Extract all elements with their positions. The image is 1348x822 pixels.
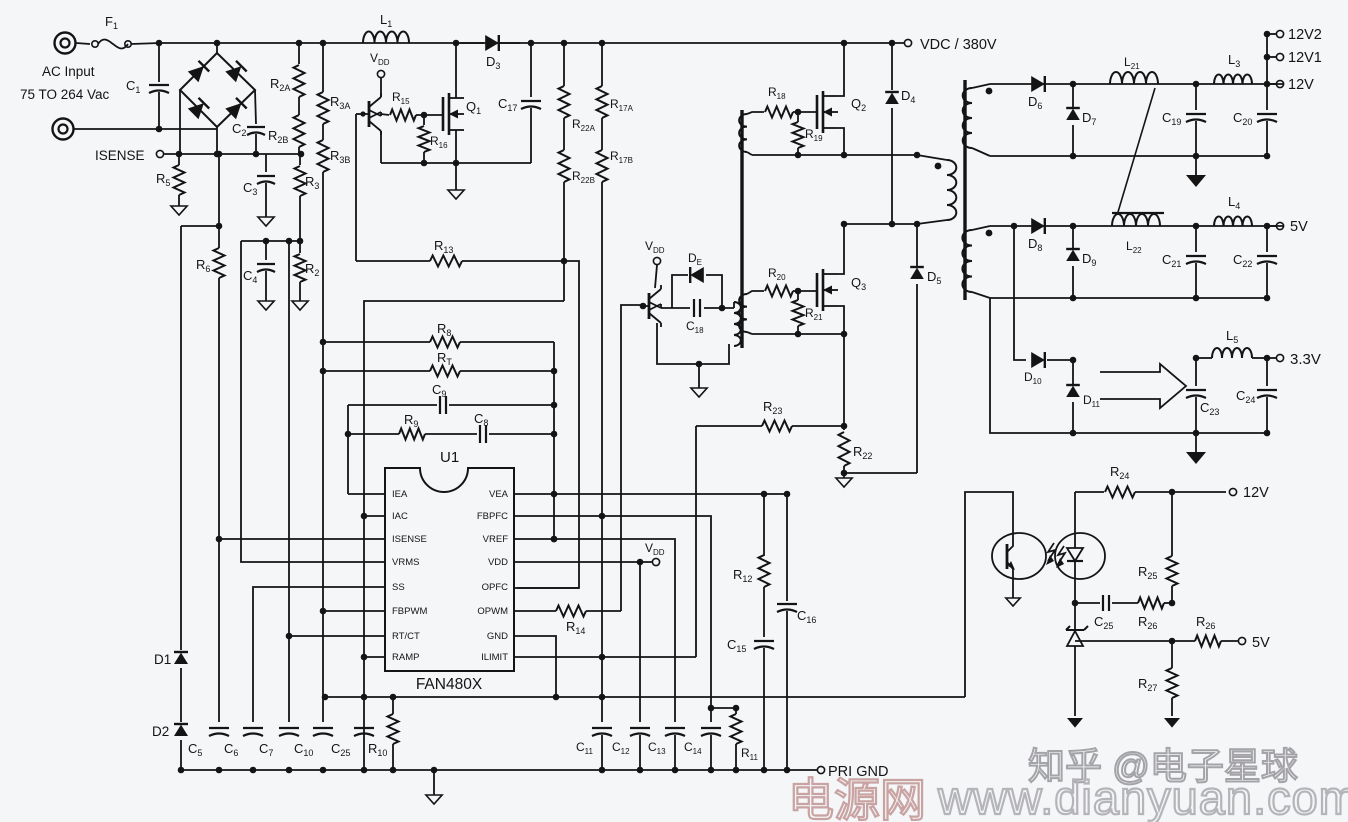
wire col564 top [561, 40, 568, 86]
capacitor C13 [648, 728, 685, 770]
transistor Q2 [817, 91, 866, 133]
resistor R14 [514, 606, 621, 637]
resistor R26 [1112, 598, 1175, 632]
svg-text:C15: C15 [727, 637, 746, 654]
resistor R6 [196, 248, 225, 722]
bridge rectifier [180, 53, 255, 127]
svg-text:R15: R15 [392, 90, 410, 106]
svg-text:C2: C2 [232, 121, 246, 138]
svg-text:VDD: VDD [488, 557, 508, 568]
svg-text:FBPFC: FBPFC [477, 511, 508, 522]
inductor L5 [1193, 328, 1271, 361]
diode D5 [910, 224, 941, 473]
capacitor C15 [727, 637, 774, 770]
resistor R11 [711, 705, 759, 770]
svg-text:C23: C23 [1200, 400, 1219, 417]
svg-text:L5: L5 [1226, 328, 1238, 345]
wire 12V return rail [990, 155, 1267, 157]
svg-text:R11: R11 [741, 746, 759, 762]
svg-text:C16: C16 [797, 608, 816, 625]
wire 5V return rail [990, 297, 1267, 299]
svg-text:R21: R21 [805, 306, 823, 322]
watermark zhihu [1028, 746, 1298, 787]
svg-text:R22B: R22B [572, 169, 595, 185]
resistor R24 [1075, 464, 1226, 498]
svg-text:D3: D3 [486, 54, 500, 71]
coupled core line [1112, 88, 1164, 213]
svg-text:AC Input: AC Input [42, 64, 95, 79]
wire 5V tap down [1014, 226, 1026, 360]
svg-text:R17B: R17B [610, 149, 633, 165]
svg-text:www.dianyuan.com: www.dianyuan.com [937, 771, 1348, 822]
capacitor C16 [777, 494, 816, 770]
resistor R7 [323, 350, 554, 377]
U1 pin names [392, 489, 509, 663]
wire 12V1 12V2 stub [1264, 31, 1271, 84]
ground below Q1 [448, 163, 464, 199]
svg-text:VDC / 380V: VDC / 380V [920, 37, 997, 53]
svg-text:R26: R26 [1196, 614, 1215, 631]
capacitor C24 [1236, 358, 1277, 433]
node Vdd at U1 [645, 541, 665, 566]
AC input terminal bottom [53, 119, 74, 140]
svg-text:R19: R19 [805, 127, 823, 143]
wire Q3 source down [841, 334, 848, 430]
svg-text:R22A: R22A [572, 117, 596, 133]
wire Q3 source [838, 306, 844, 334]
wire AC bottom [74, 126, 217, 133]
diode D3 [460, 35, 520, 71]
svg-text:F1: F1 [105, 14, 118, 31]
inductor L1 [363, 12, 409, 43]
svg-text:OPFC: OPFC [482, 582, 509, 593]
resistor R22A [559, 86, 596, 150]
svg-text:C18: C18 [686, 319, 704, 335]
transformer T2 winding lower [739, 291, 764, 334]
capacitor C2 [232, 90, 265, 154]
resistor R3B [318, 140, 351, 342]
optocoupler U2 [992, 533, 1105, 579]
svg-text:R2: R2 [305, 261, 319, 278]
ground below zener [1067, 718, 1083, 728]
node 3.3V terminal [1267, 351, 1321, 368]
inductor L21 [1110, 55, 1158, 84]
resistor R3A [318, 92, 351, 140]
svg-text:RAMP: RAMP [392, 652, 419, 663]
wire terminal to fuse [76, 43, 90, 44]
svg-text:D7: D7 [1082, 110, 1096, 127]
capacitor C5 [188, 728, 229, 758]
wire pin ILIMIT [514, 654, 696, 661]
svg-text:Q3: Q3 [851, 275, 866, 292]
wire pin RTCT [286, 633, 385, 640]
svg-text:C3: C3 [243, 180, 257, 197]
svg-text:ISENSE: ISENSE [392, 534, 427, 545]
svg-text:D1: D1 [154, 652, 171, 667]
resistor R21 [793, 291, 824, 334]
capacitor C6 [224, 728, 263, 758]
ground below R2 [292, 301, 308, 310]
wire divider node [241, 238, 303, 245]
wire bridge left down [179, 90, 181, 154]
wire node A line [752, 152, 920, 159]
svg-text:C6: C6 [224, 741, 238, 758]
big hollow arrow [1100, 364, 1186, 408]
resistor R26b [1172, 614, 1238, 647]
capacitor C9 [348, 382, 554, 414]
svg-text:SS: SS [392, 582, 405, 593]
svg-text:C8: C8 [474, 411, 488, 428]
resistor R17A [597, 86, 634, 150]
svg-text:D10: D10 [1024, 370, 1042, 386]
svg-text:VDD: VDD [370, 51, 390, 67]
svg-text:VREF: VREF [483, 534, 509, 545]
svg-text:12V: 12V [1288, 77, 1314, 93]
svg-text:D9: D9 [1082, 251, 1096, 268]
capacitor C20 [1233, 81, 1277, 160]
svg-text:D6: D6 [1028, 94, 1042, 111]
capacitor C8 [425, 411, 554, 443]
svg-text:C10: C10 [294, 741, 313, 758]
svg-text:C19: C19 [1162, 110, 1181, 127]
transformer T1 secondary upper [963, 84, 993, 156]
wire driver emitter down [380, 131, 382, 163]
svg-text:R3: R3 [305, 174, 319, 191]
capacitor C19 [1162, 81, 1206, 160]
wire Q1 drain [453, 40, 460, 98]
wire pin FBPWM [320, 608, 385, 615]
node 5V terminal [1267, 219, 1308, 235]
svg-text:R10: R10 [368, 741, 387, 758]
diode D4 [885, 40, 915, 224]
resistor R2 [295, 241, 320, 301]
wire 12V rail [990, 83, 1283, 85]
svg-text:C25: C25 [331, 741, 350, 758]
svg-text:12V1: 12V1 [1288, 50, 1322, 66]
inductor L4 [1214, 194, 1252, 226]
wire col299 top [296, 40, 303, 64]
wire node B line [752, 331, 847, 338]
wire ILIMIT to R23 [695, 426, 697, 657]
svg-text:FAN480X: FAN480X [416, 676, 483, 693]
svg-text:DE: DE [688, 251, 702, 267]
svg-text:R3B: R3B [330, 148, 350, 165]
svg-text:R14: R14 [566, 619, 585, 636]
capacitor C21 [1162, 223, 1206, 302]
capacitor C11 [576, 728, 612, 770]
svg-text:电源网: 电源网 [788, 774, 926, 822]
ground below R27 [1164, 718, 1180, 728]
svg-text:C24: C24 [1236, 388, 1255, 405]
wire ground bus [178, 767, 818, 774]
wire comp right rail [551, 342, 558, 542]
zener TL431 [1066, 603, 1088, 716]
transformer T1 primary [917, 155, 956, 224]
svg-text:R26: R26 [1138, 614, 1157, 631]
svg-text:R25: R25 [1138, 564, 1157, 581]
svg-text:D4: D4 [901, 88, 915, 105]
diode D8 [1028, 218, 1045, 253]
opto LED [1067, 492, 1083, 603]
capacitor C4 [243, 241, 275, 301]
transformer T2 primary winding [734, 302, 741, 346]
wire FBPWM column [320, 368, 327, 722]
resistor R22B [559, 150, 595, 301]
wire pin OPFC [514, 587, 579, 589]
capacitor C7 [259, 728, 299, 758]
svg-text:VDD: VDD [645, 239, 665, 255]
AC Input label [20, 64, 110, 102]
wire OPWM column [621, 305, 641, 611]
wire comp rail x348 [345, 405, 352, 494]
diode D7 [1066, 81, 1096, 160]
svg-text:ILIMIT: ILIMIT [481, 652, 508, 663]
capacitor C25 [1072, 595, 1114, 631]
wire mid bus y697 [322, 694, 965, 701]
wire R13 to OPFC column [517, 261, 579, 588]
svg-text:R13: R13 [434, 238, 453, 255]
transformer T1 core [963, 80, 966, 300]
wire left stub y226 [181, 225, 219, 227]
capacitor C1 [126, 40, 169, 129]
wire comp left rail [320, 339, 327, 371]
wire Q2 source [838, 128, 844, 155]
capacitor C3 [243, 154, 275, 217]
node 12V terminal [1267, 77, 1314, 93]
resistor R23 [696, 399, 844, 432]
resistor R8 [323, 321, 554, 348]
svg-text:D2: D2 [152, 724, 169, 739]
svg-text:C21: C21 [1162, 252, 1181, 269]
wire col564 jog to IAC column [361, 301, 564, 770]
wire RTCT column [288, 241, 290, 722]
resistor R9 [348, 412, 425, 440]
svg-text:5V: 5V [1290, 219, 1308, 235]
node 12V opto terminal [1229, 485, 1269, 501]
wire VDD decoupling column [639, 562, 641, 722]
node 12V1 terminal [1267, 50, 1322, 66]
svg-text:R24: R24 [1110, 464, 1129, 481]
node Vdd Q1 driver [370, 51, 390, 97]
wire ISENSE line [164, 151, 304, 158]
transistor Q2Q3 driver pair [640, 285, 661, 327]
node VDC terminal [904, 37, 996, 53]
svg-text:Q1: Q1 [466, 99, 481, 116]
capacitor C23 [1186, 358, 1219, 433]
opto light arrows [1046, 543, 1065, 568]
capacitor C12 [612, 722, 650, 770]
wire mid bus to opto [965, 492, 1013, 697]
wire pin IAC [364, 515, 385, 517]
wire pin IEA [348, 493, 385, 495]
svg-text:IAC: IAC [392, 511, 408, 522]
resistor R12 [733, 494, 770, 637]
ground below C18 [691, 364, 707, 397]
op-amp U1 FAN480X box [385, 449, 514, 693]
capacitor C14 [684, 705, 721, 770]
wire Q2 drain [838, 40, 847, 96]
svg-text:C22: C22 [1233, 252, 1252, 269]
resistor R2A [270, 65, 305, 115]
ground below R22 [836, 473, 852, 487]
svg-text:R18: R18 [768, 85, 786, 101]
resistor R15 [381, 90, 443, 121]
ground main bus [426, 770, 442, 804]
capacitor C22 [1233, 223, 1277, 302]
wire pin GND [514, 636, 559, 700]
svg-text:R17A: R17A [610, 97, 634, 113]
ground 3.3V return [1186, 433, 1206, 464]
svg-text:Q2: Q2 [851, 96, 866, 113]
wire col602 lower [601, 516, 603, 722]
svg-text:GND: GND [487, 631, 508, 642]
resistor R18 [765, 85, 817, 118]
resistor R27 [1138, 641, 1178, 716]
wire pin VEA [514, 491, 790, 498]
svg-text:ISENSE: ISENSE [95, 148, 145, 163]
svg-text:C11: C11 [576, 740, 594, 756]
wire Q1 bottom line [381, 160, 531, 167]
svg-text:R2B: R2B [268, 128, 288, 145]
transformer T2 winding upper [739, 112, 764, 155]
resistor R13 [356, 238, 564, 267]
node ISENSE terminal [95, 148, 164, 163]
transistor Q1 driver pair [356, 93, 381, 135]
wire pin FBPFC [514, 513, 711, 708]
svg-text:L3: L3 [1228, 52, 1240, 69]
svg-text:L22: L22 [1126, 239, 1142, 255]
fuse F1 [92, 14, 131, 48]
svg-text:C17: C17 [498, 96, 517, 113]
inductor L22 [1112, 214, 1160, 255]
resistor R25 [1138, 492, 1178, 603]
svg-text:R23: R23 [763, 399, 782, 416]
ground 12V return [1186, 156, 1206, 187]
resistor R10 [368, 697, 399, 770]
svg-text:D8: D8 [1028, 236, 1042, 253]
svg-text:12V2: 12V2 [1288, 27, 1322, 43]
svg-text:5V: 5V [1252, 635, 1270, 651]
wire col323 top [320, 40, 327, 92]
svg-text:FBPWM: FBPWM [392, 606, 427, 617]
resistor R17B [597, 149, 633, 517]
resistor R5 [156, 154, 185, 206]
svg-text:R3A: R3A [330, 94, 350, 111]
resistor R22 [839, 432, 873, 473]
wire pin SS [253, 587, 385, 722]
svg-text:VDD: VDD [645, 541, 665, 557]
svg-text:D11: D11 [1083, 393, 1101, 409]
svg-text:75 TO 264 Vac: 75 TO 264 Vac [20, 87, 110, 102]
wire top rail [160, 42, 905, 44]
svg-text:12V: 12V [1243, 485, 1269, 501]
wire 5V return to 3.3V return [990, 298, 1270, 436]
svg-text:R9: R9 [404, 412, 418, 429]
svg-text:RT: RT [437, 350, 452, 367]
diode D9 [1066, 223, 1096, 302]
ground below R5 [171, 206, 187, 215]
svg-text:C14: C14 [684, 740, 702, 756]
diode D10 [1024, 352, 1045, 386]
svg-text:R5: R5 [156, 171, 170, 188]
svg-text:R8: R8 [437, 321, 451, 338]
wire R6 column top [216, 154, 223, 248]
svg-text:L21: L21 [1124, 55, 1140, 71]
diode DE [672, 251, 722, 308]
svg-text:R22: R22 [853, 444, 872, 461]
transistor Q3 [817, 269, 866, 311]
resistor R19 [793, 112, 824, 155]
svg-text:R6: R6 [196, 257, 210, 274]
wire 5V sense line [1075, 638, 1175, 645]
wire bridge bottom down [214, 127, 221, 157]
wire pin ISENSE [216, 536, 385, 543]
watermark dianyuan url [937, 771, 1348, 822]
wire pin VREF [514, 536, 675, 722]
wire fuse to top rail [131, 43, 160, 44]
capacitor C10 [294, 728, 333, 758]
svg-text:IEA: IEA [392, 489, 408, 500]
opto phototransistor [1007, 527, 1015, 598]
ground below C4 [258, 301, 274, 310]
svg-text:R20: R20 [768, 266, 786, 282]
wire bridge top to rail [214, 40, 221, 53]
svg-text:VEA: VEA [489, 489, 509, 500]
wire driver base left [355, 114, 357, 261]
svg-text:C9: C9 [432, 382, 446, 399]
wire driver emitter branch [657, 323, 729, 367]
svg-text:3.3V: 3.3V [1290, 351, 1321, 368]
inductor L3 [1214, 52, 1252, 84]
diode D1 [154, 226, 188, 722]
diode D2 [152, 724, 188, 770]
svg-text:C5: C5 [188, 741, 202, 758]
svg-text:R27: R27 [1138, 676, 1157, 693]
capacitor C25a [331, 728, 374, 758]
wire pin VRMS [241, 241, 385, 562]
resistor R2B [268, 115, 305, 154]
svg-text:C1: C1 [126, 78, 140, 95]
transformer T2 core [740, 110, 743, 348]
svg-text:C7: C7 [259, 741, 273, 758]
svg-text:C12: C12 [612, 740, 630, 756]
svg-text:D5: D5 [927, 269, 941, 286]
capacitor C18 [686, 299, 734, 335]
svg-text:C4: C4 [243, 268, 257, 285]
diode D11 [1047, 357, 1101, 437]
resistor R16 [419, 115, 449, 163]
wire pin VDD [514, 559, 652, 566]
node Vdd Q3 driver [645, 239, 665, 288]
resistor R3 [295, 154, 320, 241]
svg-text:L1: L1 [380, 12, 392, 29]
transistor Q1 [443, 93, 481, 135]
svg-text:OPWM: OPWM [477, 606, 508, 617]
wire Q3 drain [838, 224, 844, 274]
wire R22 to D5 [841, 470, 917, 477]
wire primary bottom line [841, 221, 921, 228]
transformer T1 secondary lower [962, 226, 992, 298]
wire 5V rail [990, 223, 1283, 230]
ground below opto [1006, 598, 1020, 606]
svg-text:C13: C13 [648, 740, 666, 756]
resistor R20 [765, 266, 817, 297]
node 5V opto terminal [1238, 635, 1270, 651]
capacitor C17 [498, 40, 541, 163]
svg-text:U1: U1 [440, 449, 459, 466]
svg-text:C20: C20 [1233, 110, 1252, 127]
diode D6 [1028, 76, 1045, 111]
